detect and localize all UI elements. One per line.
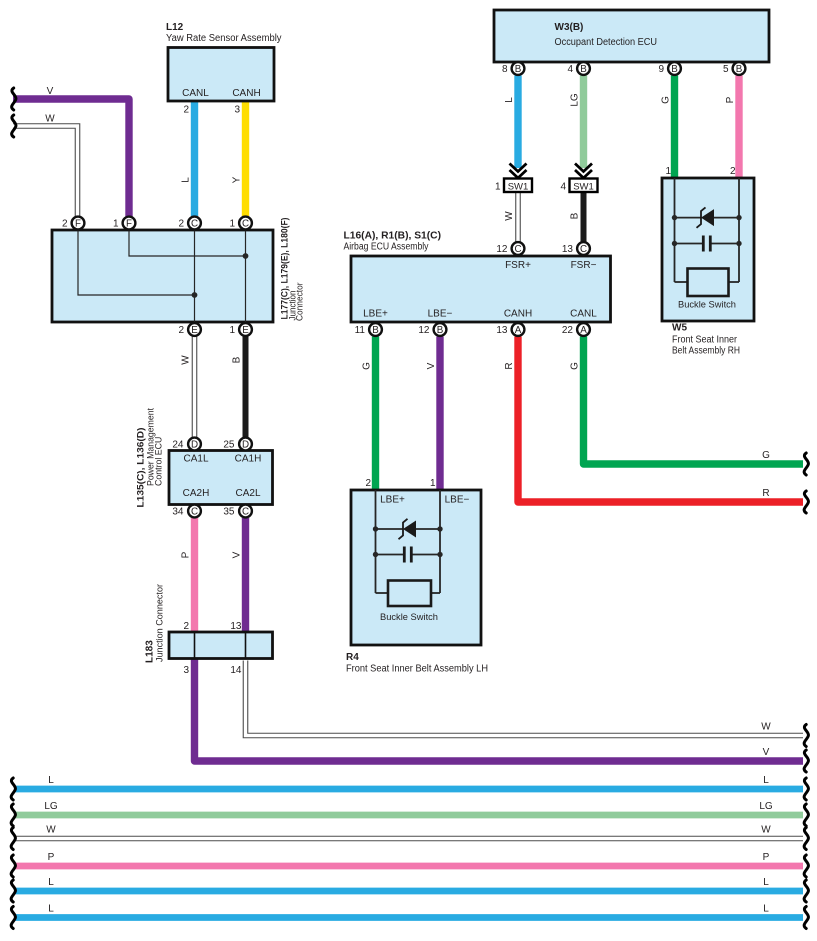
wire P from W3 pin 5 to W5 pin 2 <box>735 76 742 181</box>
svg-text:P: P <box>763 852 770 863</box>
wire W SW1 to airbag ECU pin 12 <box>515 192 521 242</box>
svg-text:Airbag ECU Assembly: Airbag ECU Assembly <box>344 242 429 253</box>
wire R CANH airbag pin 13 to right harness <box>518 337 803 503</box>
svg-text:G: G <box>661 96 672 104</box>
W5 capacitor node dots <box>672 241 677 246</box>
harness wire W at y=838.5 <box>14 836 803 842</box>
W5 internal right line <box>738 178 740 282</box>
svg-text:2: 2 <box>178 325 184 336</box>
svg-text:35: 35 <box>223 507 235 518</box>
svg-text:1: 1 <box>229 325 235 336</box>
svg-text:V: V <box>232 551 243 558</box>
junction node dot <box>192 292 198 298</box>
pin 11(B) at 375.5,329.5 <box>369 323 382 336</box>
svg-text:A: A <box>515 325 522 336</box>
svg-text:V: V <box>763 747 770 758</box>
wire G from W3 pin 9 to W5 pin 1 <box>671 76 678 181</box>
W5 diode row wire <box>675 217 702 219</box>
R4 capacitor C <box>403 547 406 563</box>
svg-text:LBE+: LBE+ <box>363 309 388 320</box>
pin 34(C) at 194.5,511 <box>188 505 201 518</box>
svg-text:Control ECU: Control ECU <box>154 437 164 486</box>
wire W from L183 pin 14 to right harness <box>246 661 804 736</box>
pin 9(B) at 674.5,68.5 <box>668 62 681 75</box>
curl left end W <box>11 828 15 850</box>
svg-text:B: B <box>736 64 743 75</box>
wire LG from W3 pin 4 to SW1 <box>580 76 587 169</box>
curl right end L <box>804 880 808 902</box>
svg-text:3: 3 <box>234 105 240 116</box>
front seat inner belt LH R4 box <box>351 490 481 645</box>
power management control ECU box L135/L136 <box>169 451 273 505</box>
svg-text:34: 34 <box>172 507 184 518</box>
svg-text:C: C <box>514 244 521 255</box>
W5 capacitor row wire <box>675 243 704 245</box>
harness wire L at y=891 <box>14 888 803 895</box>
curl right end P <box>804 855 808 877</box>
svg-text:FSR+: FSR+ <box>505 260 531 271</box>
svg-text:13: 13 <box>496 325 508 336</box>
R4 capacitor node dots <box>373 552 378 557</box>
junction connector internal line pin2F to node <box>78 230 195 295</box>
svg-text:P: P <box>48 852 55 863</box>
svg-text:CA2H: CA2H <box>183 488 210 499</box>
curl right end L <box>804 907 808 929</box>
svg-text:LBE−: LBE− <box>445 495 470 506</box>
pin 8(B) at 518,68.5 <box>512 62 525 75</box>
svg-text:W5: W5 <box>672 323 687 334</box>
W5 internal left line <box>674 178 676 282</box>
svg-text:L16(A), R1(B), S1(C): L16(A), R1(B), S1(C) <box>344 231 442 242</box>
svg-text:L: L <box>48 904 54 915</box>
svg-text:Yaw Rate Sensor Assembly: Yaw Rate Sensor Assembly <box>166 33 282 44</box>
wire W junction connector 2E to PM ECU pin 24 <box>192 337 198 438</box>
svg-text:2: 2 <box>730 166 736 177</box>
svg-text:LBE+: LBE+ <box>380 495 405 506</box>
curl right end of wire W <box>804 725 808 747</box>
curl left end of wire W <box>12 115 16 137</box>
pin 22(A) at 583.5,329.5 <box>577 323 590 336</box>
pin 13(C) at 583.5,248.5 <box>577 242 590 255</box>
SW1 connector box no.2 <box>570 179 598 193</box>
svg-text:W: W <box>504 211 515 221</box>
svg-text:1: 1 <box>495 182 501 193</box>
svg-text:CA2L: CA2L <box>235 488 260 499</box>
svg-text:W: W <box>761 722 771 733</box>
junction node dot <box>243 253 249 259</box>
curl left end L <box>11 778 15 800</box>
svg-text:C: C <box>242 507 249 518</box>
W5 diode node dots <box>672 215 677 220</box>
R4 buckle switch connect right <box>431 592 440 594</box>
svg-text:C: C <box>191 507 198 518</box>
curl right end of wire V <box>804 750 808 772</box>
curl left end P <box>11 855 15 877</box>
svg-text:B: B <box>671 64 678 75</box>
curl right end of wire R <box>804 491 808 513</box>
svg-text:Front Seat Inner: Front Seat Inner <box>672 335 738 346</box>
svg-text:A: A <box>580 325 587 336</box>
front seat inner belt RH W5 box <box>662 178 754 321</box>
svg-text:4: 4 <box>567 64 573 75</box>
W5 buckle switch connect right <box>729 281 740 283</box>
harness wire P at y=866 <box>14 863 803 870</box>
svg-text:W: W <box>181 355 192 365</box>
pin 2(E) at 194.5,329.5 <box>188 323 201 336</box>
svg-text:E: E <box>242 325 249 336</box>
svg-text:2: 2 <box>62 219 68 230</box>
svg-text:C: C <box>242 219 249 230</box>
pin 1(C) at 245.5,223 <box>239 217 252 230</box>
wire G CANL airbag pin 22 to right harness <box>584 337 804 465</box>
wire L CANL from L12 to junction connector <box>191 100 198 216</box>
svg-text:CANL: CANL <box>182 88 209 99</box>
pin 2(F) at 78,223 <box>72 217 85 230</box>
curl left end L <box>11 907 15 929</box>
curl right end of wire G <box>804 453 808 475</box>
svg-text:G: G <box>570 362 581 370</box>
svg-text:13: 13 <box>562 244 574 255</box>
svg-text:B: B <box>515 64 522 75</box>
svg-text:CANL: CANL <box>570 309 597 320</box>
curl right end W <box>804 828 808 850</box>
svg-text:1: 1 <box>229 219 235 230</box>
R4 capacitor row wire <box>376 554 405 556</box>
wire Y CANH from L12 to junction connector <box>242 100 249 216</box>
svg-text:L: L <box>763 775 769 786</box>
pin 1(E) at 245.5,329.5 <box>239 323 252 336</box>
wire G airbag pin 11 to R4 pin 2 <box>372 337 379 492</box>
svg-text:B: B <box>437 325 444 336</box>
svg-text:D: D <box>191 440 198 451</box>
pin 1(F) at 129,223 <box>123 217 136 230</box>
svg-text:C: C <box>191 219 198 230</box>
curl left end LG <box>11 804 15 826</box>
svg-text:L: L <box>763 904 769 915</box>
svg-text:W: W <box>46 825 56 836</box>
wire V from harness to junction connector pin 1F <box>13 99 129 217</box>
svg-text:13: 13 <box>230 621 242 632</box>
W5 capacitor C <box>702 236 705 252</box>
svg-text:W3(B): W3(B) <box>555 22 584 33</box>
svg-text:P: P <box>181 551 192 558</box>
svg-text:F: F <box>126 219 132 230</box>
wire V from L183 pin 3 to right harness <box>195 659 804 761</box>
svg-text:R: R <box>762 488 769 499</box>
svg-text:3: 3 <box>183 665 189 676</box>
junction connector box L177/L179/L180 <box>52 230 273 322</box>
svg-text:L: L <box>181 177 192 183</box>
svg-text:FSR−: FSR− <box>571 260 597 271</box>
junction connector internal line pin1F to node <box>129 230 246 256</box>
R4 diode row wire <box>376 528 404 530</box>
occupant detection ECU W3 box <box>494 10 769 62</box>
svg-text:B: B <box>372 325 379 336</box>
svg-text:L: L <box>504 97 515 103</box>
svg-text:L: L <box>763 877 769 888</box>
R4 buckle switch connect left <box>376 592 389 594</box>
svg-text:CANH: CANH <box>232 88 260 99</box>
svg-text:C: C <box>580 244 587 255</box>
svg-text:Buckle Switch: Buckle Switch <box>678 300 736 311</box>
yaw rate sensor L12 box <box>168 48 274 102</box>
wire P PM ECU pin 34 to L183 pin 2 <box>191 518 198 634</box>
svg-text:LG: LG <box>759 801 773 812</box>
junction connector internal line pin2C to pin2E <box>194 230 196 322</box>
svg-text:L: L <box>48 775 54 786</box>
svg-text:2: 2 <box>183 621 189 632</box>
svg-text:B: B <box>232 356 243 363</box>
W5 zener diode <box>697 207 715 227</box>
wire B SW1 to airbag ECU pin 13 <box>581 192 587 242</box>
svg-text:Belt Assembly RH: Belt Assembly RH <box>672 346 740 357</box>
svg-text:CANH: CANH <box>504 309 532 320</box>
svg-text:2: 2 <box>365 478 371 489</box>
harness wire L at y=917.5 <box>14 914 803 921</box>
svg-text:9: 9 <box>658 64 664 75</box>
R4 buckle switch <box>388 581 431 607</box>
curl right end L <box>804 778 808 800</box>
svg-text:Connector: Connector <box>295 282 305 321</box>
svg-text:P: P <box>725 96 736 103</box>
junction connector L183 box <box>169 632 273 659</box>
pin 24(D) at 194.5,444 <box>188 438 201 451</box>
svg-text:W: W <box>45 114 55 125</box>
svg-text:1: 1 <box>113 219 119 230</box>
svg-text:4: 4 <box>560 182 566 193</box>
svg-text:5: 5 <box>723 64 729 75</box>
R4 internal right line <box>439 490 441 593</box>
pin 2(C) at 194.5,223 <box>188 217 201 230</box>
svg-text:Occupant Detection ECU: Occupant Detection ECU <box>555 37 658 48</box>
svg-text:Buckle Switch: Buckle Switch <box>380 612 438 623</box>
airbag ECU box L16/R1/S1 <box>351 256 611 322</box>
curl left end of wire V <box>12 88 16 110</box>
svg-text:D: D <box>242 440 249 451</box>
wire L from W3 pin 8 to SW1 <box>514 76 521 169</box>
L183 divider left <box>194 632 196 659</box>
svg-text:G: G <box>762 450 770 461</box>
W5 buckle switch connect left <box>675 281 688 283</box>
wire V PM ECU pin 35 to L183 pin 13 <box>242 518 249 634</box>
svg-text:14: 14 <box>230 665 242 676</box>
svg-text:25: 25 <box>223 440 235 451</box>
curl right end LG <box>804 804 808 826</box>
svg-text:22: 22 <box>562 325 574 336</box>
svg-text:V: V <box>426 362 437 369</box>
svg-text:R: R <box>504 362 515 369</box>
R4 zener diode <box>399 519 417 539</box>
wire W from harness to junction connector pin 2F <box>13 126 78 217</box>
svg-text:V: V <box>47 86 54 97</box>
pin 35(C) at 245.5,511 <box>239 505 252 518</box>
svg-text:12: 12 <box>496 244 508 255</box>
pin 25(D) at 245.5,444 <box>239 438 252 451</box>
pin 13(A) at 518,329.5 <box>512 323 525 336</box>
harness wire L at y=789 <box>14 786 803 793</box>
pin 5(B) at 739,68.5 <box>733 62 746 75</box>
R4 internal left line <box>375 490 377 593</box>
junction connector internal line pin1C to pin1E <box>245 230 247 322</box>
svg-text:CA1L: CA1L <box>183 454 208 465</box>
svg-text:12: 12 <box>418 325 430 336</box>
svg-text:LG: LG <box>570 93 581 107</box>
svg-text:Y: Y <box>232 176 243 183</box>
wire V airbag pin 12 to R4 pin 1 <box>436 337 443 492</box>
pin 12(C) at 518,248.5 <box>512 242 525 255</box>
svg-text:1: 1 <box>430 478 436 489</box>
svg-text:2: 2 <box>178 219 184 230</box>
svg-text:CA1H: CA1H <box>235 454 262 465</box>
svg-text:2: 2 <box>183 105 189 116</box>
svg-text:B: B <box>570 212 581 219</box>
shield arrows into SW1 no.1 <box>510 164 527 179</box>
svg-text:24: 24 <box>172 440 184 451</box>
L183 divider right <box>245 632 247 659</box>
wire B junction connector 1E to PM ECU pin 25 <box>243 337 249 438</box>
svg-text:B: B <box>580 64 587 75</box>
svg-text:Front Seat Inner Belt Assembly: Front Seat Inner Belt Assembly LH <box>346 664 488 675</box>
pin 12(B) at 440,329.5 <box>434 323 447 336</box>
SW1 connector box no.1 <box>504 179 532 193</box>
svg-text:Junction Connector: Junction Connector <box>155 584 165 662</box>
svg-text:LG: LG <box>44 801 58 812</box>
svg-text:F: F <box>75 219 81 230</box>
svg-text:R4: R4 <box>346 652 359 663</box>
curl left end L <box>11 880 15 902</box>
svg-text:11: 11 <box>355 325 366 336</box>
svg-text:L12: L12 <box>166 22 184 33</box>
shield arrows into SW1 no.2 <box>575 164 592 179</box>
svg-text:E: E <box>191 325 198 336</box>
svg-text:8: 8 <box>502 64 508 75</box>
svg-text:W: W <box>761 825 771 836</box>
pin 4(B) at 583.5,68.5 <box>577 62 590 75</box>
R4 diode node dots <box>373 526 378 531</box>
svg-text:LBE−: LBE− <box>428 309 453 320</box>
W5 buckle switch <box>688 269 729 297</box>
svg-text:L: L <box>48 877 54 888</box>
harness wire LG at y=815 <box>14 812 803 819</box>
svg-text:SW1: SW1 <box>508 181 529 192</box>
svg-text:SW1: SW1 <box>573 181 594 192</box>
svg-text:G: G <box>362 362 373 370</box>
svg-text:1: 1 <box>665 166 671 177</box>
